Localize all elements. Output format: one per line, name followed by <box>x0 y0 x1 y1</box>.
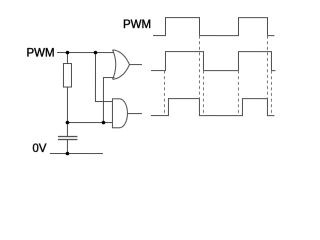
wire RC node up to OR bottom input <box>103 78 114 123</box>
wire RC node rail <box>67 122 112 124</box>
wire resistor top <box>66 53 68 64</box>
dashed edge marker at first PWM fall <box>198 36 200 99</box>
junction dot on 0V rail <box>66 152 70 156</box>
junction dot on PWM rail at AND branch <box>94 51 98 55</box>
wire AND output <box>127 113 142 115</box>
wire capacitor top lead <box>66 123 68 137</box>
junction dot on RC rail at resistor <box>66 121 70 125</box>
wire 0V rail <box>50 153 103 155</box>
or-gate U1 <box>113 50 142 80</box>
waveform AND output (bottom trace) <box>151 99 275 116</box>
wire resistor bottom to RC node <box>66 87 68 122</box>
capacitor C <box>58 137 78 140</box>
wire OR output <box>129 64 141 66</box>
svg-text:0V: 0V <box>32 143 46 155</box>
svg-text:PWM: PWM <box>26 48 54 60</box>
resistor R <box>63 64 71 88</box>
wire capacitor bottom lead <box>66 140 68 154</box>
wire PWM down to AND top input <box>95 53 112 102</box>
node PWM: wire from label to OR gate top input <box>50 53 115 154</box>
svg-text:PWM: PWM <box>123 19 151 31</box>
waveform OR output (middle trace) <box>151 52 276 71</box>
dashed edge marker at first rise <box>163 71 165 116</box>
junction dot on RC rail at OR branch <box>102 121 106 125</box>
dashed edge marker at second PWM fall <box>266 36 268 99</box>
dashed edge marker at first OR fall <box>202 71 204 116</box>
and-gate U2 <box>112 99 142 128</box>
dashed edge marker at second rise <box>237 71 239 116</box>
dashed edge marker at second OR fall <box>270 71 272 116</box>
wire PWM rail <box>57 52 114 54</box>
junction dot on PWM rail at resistor <box>66 51 70 55</box>
waveform PWM (top trace) <box>153 18 275 36</box>
